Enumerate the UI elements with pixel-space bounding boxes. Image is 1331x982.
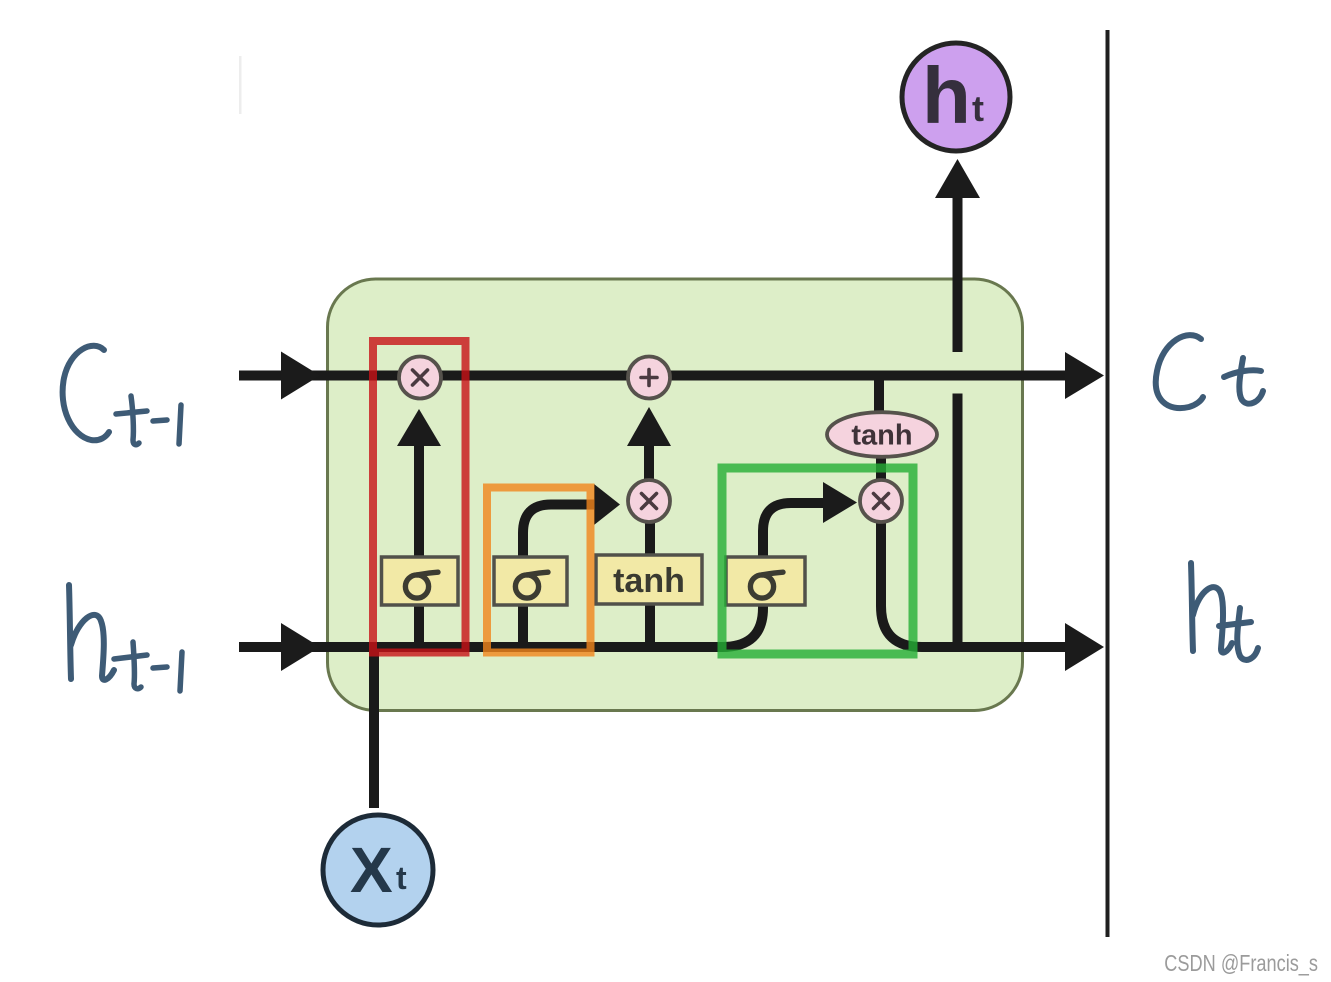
- svg-text:tanh: tanh: [613, 562, 685, 600]
- svg-text:h: h: [922, 51, 971, 140]
- svg-text:CSDN @Francis_s: CSDN @Francis_s: [1164, 951, 1318, 977]
- svg-text:X: X: [350, 834, 393, 906]
- svg-text:tanh: tanh: [851, 420, 912, 452]
- svg-text:t: t: [972, 88, 984, 129]
- svg-text:t: t: [396, 860, 407, 896]
